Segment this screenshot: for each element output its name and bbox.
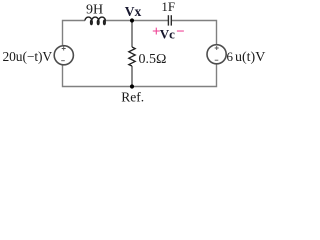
voltage source V2 plus sign	[215, 46, 219, 50]
svg-text:1F: 1F	[161, 0, 175, 14]
svg-text:Vx: Vx	[125, 4, 142, 19]
voltage source V1 plus sign	[62, 47, 66, 51]
voltage source V1 minus sign	[61, 60, 65, 62]
inductor 9H coil	[85, 17, 105, 24]
voltage source V1 circle	[54, 46, 73, 65]
wire bottom-right segment	[132, 65, 217, 87]
svg-text:6: 6	[227, 49, 234, 64]
resistor R 0.5 ohm zigzag	[129, 47, 135, 66]
voltage source V2 circle	[207, 45, 226, 64]
wire top-right segment	[172, 21, 217, 45]
wire bottom-left segment	[63, 65, 133, 87]
capacitor C 1F plates	[167, 15, 169, 25]
wire resistor branch lower	[131, 66, 133, 87]
wire top-left segment	[63, 21, 86, 46]
voltage source V2 minus sign	[215, 59, 219, 61]
node Vx dot	[130, 18, 134, 22]
svg-text:u(t)V: u(t)V	[235, 50, 265, 65]
svg-text:9H: 9H	[86, 3, 103, 18]
ground node Ref dot	[130, 84, 134, 88]
svg-text:0.5Ω: 0.5Ω	[139, 52, 167, 67]
svg-text:Ref.: Ref.	[121, 90, 144, 105]
wire resistor branch upper	[131, 21, 133, 48]
svg-text:Vc: Vc	[160, 27, 175, 42]
svg-text:−: −	[176, 24, 185, 40]
svg-text:20u(−t)V: 20u(−t)V	[3, 49, 53, 64]
wire top-middle segment	[106, 20, 169, 22]
